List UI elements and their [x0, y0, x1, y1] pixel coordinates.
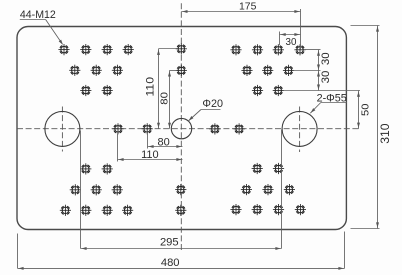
svg-text:44-M12: 44-M12: [20, 9, 56, 21]
leader Φ20: [201, 109, 221, 111]
plate outline: [17, 27, 346, 230]
right circle centerline: [299, 107, 301, 153]
top center column holes: [176, 43, 187, 54]
svg-text:Φ20: Φ20: [202, 98, 223, 110]
svg-text:80: 80: [159, 92, 170, 105]
top-right cluster row1: [230, 44, 241, 55]
dim 80 horizontal: [148, 146, 183, 148]
svg-text:110: 110: [145, 77, 156, 97]
top-left cluster row3: [80, 85, 91, 96]
dim 295: [81, 248, 282, 250]
leader 44-M12: [20, 19, 46, 21]
leader 2-Φ55: [321, 102, 347, 104]
arrowheads: [182, 10, 187, 13]
svg-text:30: 30: [320, 52, 332, 65]
svg-text:2-Φ55: 2-Φ55: [317, 93, 347, 105]
bottom-left cluster row6: [60, 205, 71, 216]
svg-text:110: 110: [141, 149, 159, 161]
svg-text:30: 30: [286, 37, 297, 48]
dim 50: [358, 91, 360, 129]
svg-text:480: 480: [161, 257, 180, 269]
bottom-right cluster row4: [252, 163, 263, 174]
svg-text:310: 310: [378, 123, 392, 144]
horizontal centerline: [17, 128, 360, 130]
svg-text:30: 30: [320, 71, 332, 84]
svg-text:175: 175: [239, 2, 257, 13]
dim 480: [18, 267, 345, 269]
top-left cluster row2: [69, 65, 80, 76]
svg-text:295: 295: [160, 237, 179, 249]
vertical centerline: [180, 3, 182, 252]
bottom-left cluster row5: [70, 184, 81, 195]
top-right cluster row3: [252, 85, 263, 96]
large bore right (Φ55): [282, 111, 317, 146]
bottom-right cluster row6: [230, 204, 241, 215]
dim 310: [377, 26, 379, 229]
center hole (Φ20): [171, 118, 191, 138]
dim 175: [181, 11, 300, 13]
dim 30 top: [280, 34, 301, 36]
svg-text:50: 50: [360, 104, 371, 117]
centerline row holes: [112, 123, 123, 134]
dim 110 vertical: [158, 49, 160, 129]
dim 80 vertical: [169, 70, 171, 128]
bottom center column holes: [175, 184, 186, 195]
top-left cluster row1: [58, 44, 69, 55]
top-right cluster row2: [241, 65, 252, 76]
svg-text:80: 80: [157, 136, 169, 148]
bottom-left cluster row4: [80, 163, 91, 174]
large bore left (Φ55): [45, 111, 80, 146]
bottom-right cluster row5: [241, 184, 252, 195]
dim 30/30 right chain: [318, 50, 320, 91]
dim 110 horizontal: [118, 159, 183, 161]
left circle centerline: [61, 107, 63, 152]
